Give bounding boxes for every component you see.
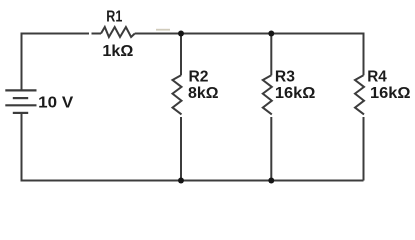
resistor R3 [263, 75, 272, 114]
battery plate short [13, 97, 28, 99]
wire top rail right of R1 [135, 33, 364, 35]
wire top rail left segment part 2 (after small gap) [92, 33, 102, 35]
resistor R4 [355, 75, 364, 114]
wire top rail left segment [22, 34, 90, 35]
wire left rail lower [21, 114, 23, 182]
node junction top R3 [268, 31, 274, 37]
battery plate long top [5, 89, 36, 91]
wire R3 branch lower [270, 117, 272, 181]
svg-text:16kΩ: 16kΩ [370, 85, 411, 102]
svg-text:R1: R1 [106, 9, 122, 26]
svg-text:R2: R2 [189, 69, 209, 86]
svg-text:1kΩ: 1kΩ [102, 43, 133, 60]
battery VS 10 V plates [5, 90, 36, 113]
svg-text:10 V: 10 V [38, 95, 73, 112]
battery plate short bottom [13, 112, 28, 114]
node junction bottom R3 [268, 178, 274, 184]
resistor R1 [101, 27, 135, 37]
svg-text:16kΩ: 16kΩ [275, 85, 316, 102]
svg-text:R3: R3 [275, 69, 295, 86]
wire right rail upper [363, 33, 365, 76]
wire R2 branch upper [180, 34, 182, 76]
wire bottom rail [22, 180, 364, 182]
resistor R2 [173, 75, 182, 114]
svg-text:R4: R4 [367, 69, 387, 86]
wire R3 branch upper [270, 34, 272, 76]
artifact faint dash above rail [156, 29, 170, 31]
node junction bottom R2 [178, 178, 184, 184]
wire left rail upper [21, 34, 23, 90]
node junction top R2 [178, 31, 184, 37]
wire R2 branch lower [180, 117, 182, 181]
svg-text:8kΩ: 8kΩ [188, 85, 219, 102]
battery plate long [5, 104, 36, 106]
wire right rail lower [363, 117, 365, 181]
